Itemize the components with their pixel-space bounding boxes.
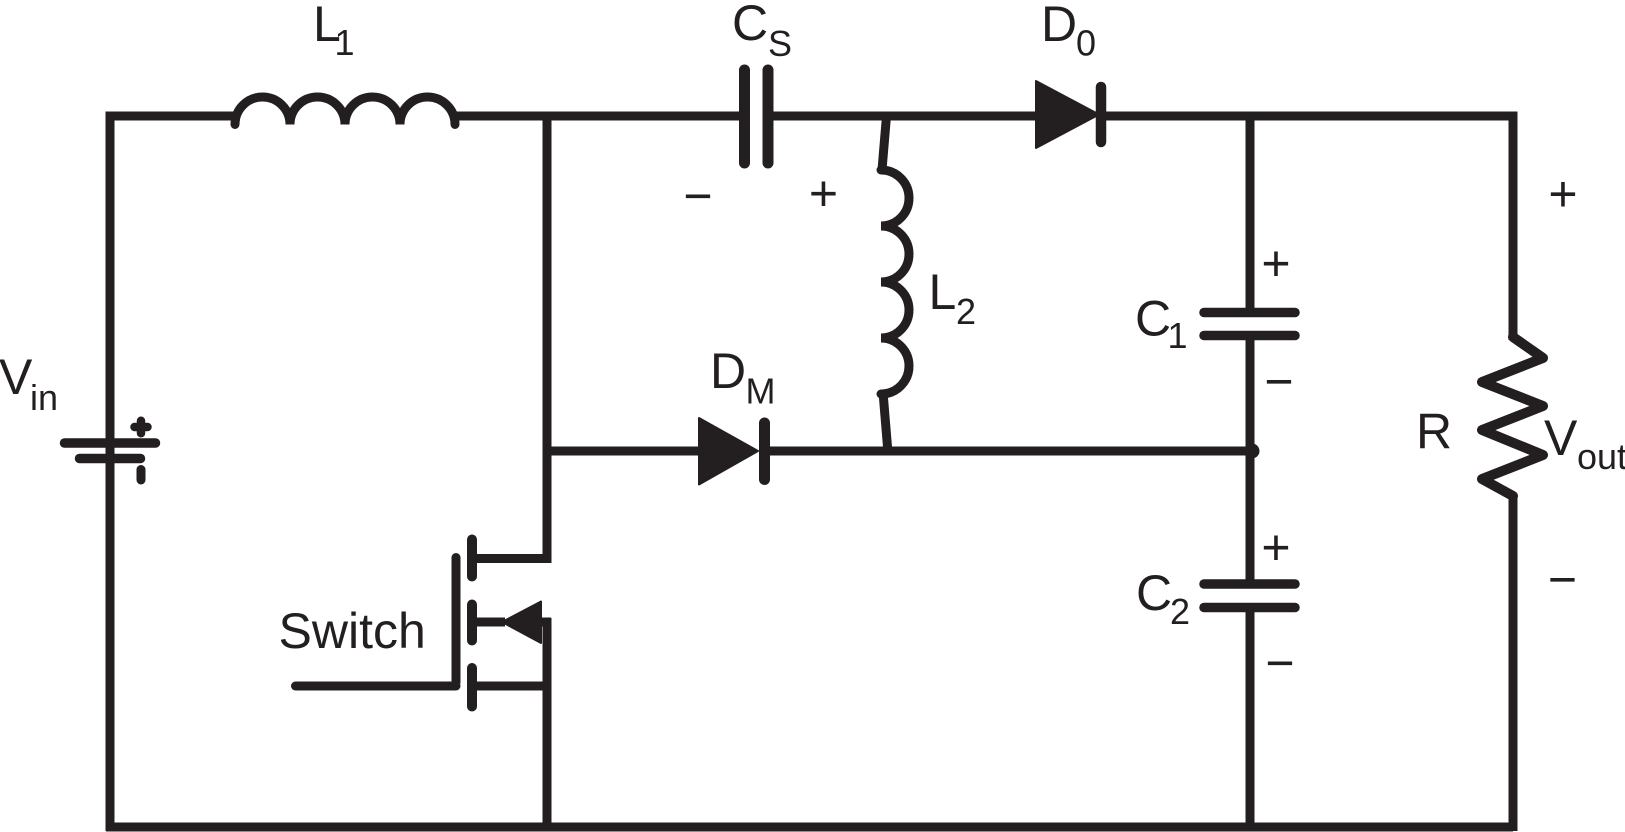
battery Vin top plate (65, 438, 156, 448)
transistor Q1 gate lead (296, 682, 457, 691)
svg-text:S: S (768, 23, 792, 64)
wire C branch bottom (1246, 608, 1255, 827)
svg-text:2: 2 (1170, 591, 1190, 632)
wire right vertical upper (1509, 112, 1518, 341)
transistor Q1 arrow-to-source link (541, 618, 551, 627)
inductor L1 (235, 97, 455, 125)
capacitor C2 bottom plate (1204, 603, 1295, 613)
wire C branch top (1246, 116, 1255, 311)
svg-text:R: R (1416, 404, 1452, 460)
diode DM cathode bar (759, 423, 770, 480)
wire C branch middle (1246, 337, 1255, 583)
svg-text:2: 2 (956, 291, 976, 332)
transistor Q1 drain lead (474, 554, 547, 559)
transistor Q1 body arrow line (477, 618, 505, 627)
resistor R (1482, 337, 1543, 496)
wire L2 bottom stub (883, 392, 888, 453)
svg-text:V: V (1544, 410, 1578, 466)
svg-text:−: − (683, 168, 712, 224)
transistor Q1 top channel bar (467, 540, 477, 577)
wire CS to D0 (771, 112, 1040, 121)
inductor L2 (881, 170, 909, 394)
svg-text:C: C (1135, 291, 1171, 347)
wire L1 to CS (452, 112, 741, 121)
svg-text:V: V (0, 349, 33, 405)
svg-text:C: C (1136, 565, 1172, 621)
svg-text:C: C (732, 0, 768, 51)
transistor Q1 body arrow head (502, 602, 541, 644)
wire L2 top stub (882, 116, 887, 170)
wire bottom (106, 823, 1513, 832)
capacitor C1 top plate (1204, 308, 1295, 318)
battery plus sign (135, 421, 148, 434)
svg-text:+: + (1261, 520, 1290, 576)
svg-text:Switch: Switch (279, 603, 426, 659)
transistor Q1 bottom channel bar (467, 668, 477, 707)
svg-text:D: D (1041, 0, 1077, 52)
svg-text:in: in (30, 377, 58, 418)
node junction dot (1245, 444, 1260, 459)
transistor Q1 source lead (474, 682, 547, 691)
svg-text:−: − (1265, 635, 1294, 691)
wire source vertical (543, 618, 552, 827)
svg-text:+: + (809, 166, 838, 222)
svg-text:out: out (1577, 436, 1625, 477)
capacitor CS left plate (739, 70, 750, 163)
wire switch-node vertical (543, 116, 552, 558)
svg-text:0: 0 (1076, 23, 1096, 64)
wire right vertical lower (1509, 494, 1518, 831)
wire middle left (switch node to DM) (547, 447, 701, 456)
svg-text:1: 1 (1168, 315, 1188, 356)
wire left vertical (Vin branch) (106, 112, 115, 832)
transistor Q1 gate line (452, 558, 461, 683)
wire D0 to top-right corner (1099, 112, 1509, 121)
diode DM triangle (699, 418, 758, 485)
svg-text:−: − (1548, 552, 1577, 608)
battery Vin bottom plate (80, 454, 141, 464)
svg-text:−: − (1264, 354, 1293, 410)
svg-text:L: L (929, 264, 957, 320)
capacitor C1 bottom plate (1204, 331, 1295, 341)
capacitor C2 top plate (1204, 579, 1295, 589)
svg-text:+: + (1261, 236, 1290, 292)
svg-text:+: + (1548, 166, 1577, 222)
svg-text:M: M (746, 371, 776, 412)
wire middle right (DM to C node) (768, 447, 1251, 456)
capacitor CS right plate (763, 70, 774, 163)
svg-text:D: D (710, 343, 746, 399)
diode D0 triangle (1036, 81, 1099, 148)
svg-text:1: 1 (335, 22, 355, 63)
battery minus tick (137, 470, 146, 481)
diode D0 cathode bar (1096, 87, 1107, 142)
wire top left (110, 112, 240, 121)
transistor Q1 middle channel bar (467, 605, 477, 641)
